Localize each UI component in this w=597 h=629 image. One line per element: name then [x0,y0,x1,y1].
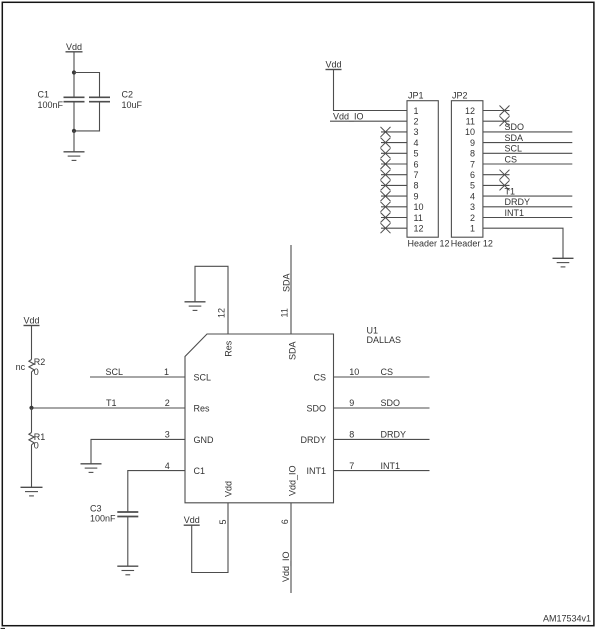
ground (R1) [21,487,43,496]
svg-text:2: 2 [470,213,475,223]
junction bottom (C1/C2 bottom node) [72,129,76,133]
ground (below C1/C2) [64,131,85,161]
wire JP2 pin 12 no-connect [483,106,510,116]
svg-text:0: 0 [34,367,39,377]
wire JP1 pin 3 no-connect [381,127,408,137]
wire JP1 pin 4 no-connect [381,138,408,148]
svg-text:8: 8 [414,181,419,191]
svg-text:GND: GND [194,435,215,445]
svg-text:Header 12: Header 12 [408,239,450,249]
label C2 10uF [122,90,143,110]
resistor R1 [29,433,34,445]
svg-text:SDO: SDO [381,398,401,408]
wire JP1 pin 5 no-connect [381,148,408,158]
svg-text:7: 7 [349,461,354,471]
svg-text:3: 3 [165,430,170,440]
ground (U1 pin 3) [81,464,102,473]
svg-text:SDO: SDO [306,404,326,414]
capacitor C3 [117,512,138,517]
svg-text:9: 9 [349,398,354,408]
svg-text:Res: Res [223,340,233,357]
svg-text:SCL: SCL [106,367,124,377]
svg-text:12: 12 [465,106,475,116]
wire net SDA from JP2 pin 9 [483,133,572,143]
svg-text:10: 10 [349,367,359,377]
wire JP1 pin 8 no-connect [381,180,408,190]
svg-text:9: 9 [414,191,419,201]
label U1 DALLAS [367,326,402,346]
wire JP1 pin 10 no-connect [381,202,408,212]
power Vdd (left) [23,315,39,325]
svg-text:1: 1 [164,367,169,377]
power Vdd (top-left) [66,42,83,52]
svg-text:SCL: SCL [194,373,212,383]
svg-text:Res: Res [194,404,211,414]
wire net INT1 from U1 pin 7 [334,461,430,471]
svg-text:2: 2 [414,117,419,127]
svg-text:C1: C1 [38,90,50,100]
wire net INT1 from JP2 pin 2 [483,208,572,218]
svg-text:INT1: INT1 [381,461,401,471]
svg-text:4: 4 [165,461,170,471]
svg-text:Vdd_IO: Vdd_IO [281,551,291,582]
svg-text:T1: T1 [106,398,117,408]
svg-text:100nF: 100nF [38,100,64,110]
junction top (C1/C2 top node) [72,70,76,74]
wire JP1 pin 7 no-connect [381,170,408,180]
wire C3 to ground [127,517,129,567]
wire Vdd bar to C1 top [73,52,75,98]
svg-text:U1: U1 [367,326,379,336]
wire net SCL from JP2 pin 8 [483,144,572,154]
wire JP2 pin 6 no-connect [483,170,510,180]
svg-text:7: 7 [414,170,419,180]
svg-text:Vdd_IO: Vdd_IO [287,465,297,496]
wire C2 bottom to bottom node [74,102,100,131]
label R1 0 [34,432,46,451]
svg-text:6: 6 [414,159,419,169]
wire R2 to junction [31,372,33,408]
svg-text:AM17534v1: AM17534v1 [543,613,591,623]
svg-text:Header 12: Header 12 [451,239,493,249]
svg-text:Vdd: Vdd [223,481,233,497]
connector JP1 [407,90,438,237]
svg-text:R2: R2 [34,357,46,367]
wire top node to C2 [74,73,100,98]
svg-text:3: 3 [470,202,475,212]
label C1 100nF [38,90,64,110]
wire JP1 pin 11 no-connect [381,213,408,223]
ground (U1 pin 12) [185,302,206,311]
wire net SDA from U1 pin 11 [290,245,292,334]
svg-text:nc: nc [16,362,26,372]
wire JP2 pin 1 to ground [483,228,563,258]
wire net T1 to U1 pin 2 [32,398,186,408]
svg-text:4: 4 [414,138,419,148]
svg-text:T1: T1 [505,186,516,196]
wire net CS from U1 pin 10 [334,367,430,377]
svg-text:5: 5 [470,181,475,191]
wire C1 bottom to bottom node [73,102,75,131]
wire JP2 pin 5 no-connect [483,180,510,190]
svg-text:SDO: SDO [505,122,525,132]
svg-text:SDA: SDA [281,273,291,292]
svg-text:5: 5 [218,519,228,524]
svg-text:DALLAS: DALLAS [367,335,402,345]
JP1 pin numbers 1-12 [414,106,424,234]
svg-text:6: 6 [470,170,475,180]
svg-text:SDA: SDA [287,341,297,360]
wire JP1 pin 9 no-connect [381,191,408,201]
svg-text:CS: CS [505,154,518,164]
svg-text:8: 8 [470,149,475,159]
svg-text:DRDY: DRDY [381,430,407,440]
svg-text:JP1: JP1 [408,90,424,100]
JP2 pin numbers 12-1 [465,106,475,234]
svg-text:C1: C1 [194,466,206,476]
svg-text:SCL: SCL [505,144,523,154]
svg-text:3: 3 [414,127,419,137]
wire junction to R1 [31,408,33,433]
svg-text:CS: CS [313,373,326,383]
power Vdd (U1 pin 5) [184,515,200,525]
svg-text:SDA: SDA [505,133,524,143]
svg-text:10uF: 10uF [122,100,143,110]
svg-text:10: 10 [414,202,424,212]
svg-text:0: 0 [34,441,39,451]
label R2 0 [34,357,46,377]
wire U1 pin 12 to ground [195,266,228,334]
svg-text:Vdd_IO: Vdd_IO [333,111,364,121]
wire U1 pin 5 to Vdd [192,503,228,573]
svg-text:DRDY: DRDY [300,435,326,445]
wire Vdd to R2 [31,326,33,360]
capacitor C2 [89,97,110,101]
junction T1 node [29,406,33,410]
wire U1 pin 4 to C3 [128,471,185,512]
wire net SCL to U1 pin 1 [90,367,185,377]
power Vdd (top-right) [325,59,341,69]
wire JP1 pin 6 no-connect [381,159,408,169]
svg-text:11: 11 [466,117,475,127]
svg-text:Vdd: Vdd [66,42,82,52]
svg-text:INT1: INT1 [306,466,326,476]
svg-text:2: 2 [165,398,170,408]
wire JP1 pin 12 no-connect [381,223,408,233]
ground (C3) [117,566,138,575]
wire net Vdd_IO from U1 pin 6 [290,503,292,593]
svg-text:11: 11 [414,213,423,223]
svg-text:12: 12 [217,308,227,318]
capacitor C1 [64,97,85,101]
connector JP2 [451,90,483,237]
wire R1 to ground [31,445,33,488]
svg-text:5: 5 [414,149,419,159]
svg-text:C3: C3 [90,504,102,514]
svg-text:7: 7 [470,159,475,169]
svg-text:Vdd: Vdd [23,315,39,325]
svg-text:6: 6 [280,519,290,524]
wire Vdd to JP1 pin 1 [334,70,408,111]
svg-text:12: 12 [414,224,424,234]
wire U1 pin 3 to ground [91,439,185,463]
svg-text:11: 11 [280,308,290,317]
svg-text:9: 9 [470,138,475,148]
svg-text:CS: CS [381,367,394,377]
ground (JP2 pin 1) [553,258,574,267]
wire net CS from JP2 pin 7 [483,154,572,164]
wire net SDO from U1 pin 9 [334,398,430,408]
svg-text:Vdd: Vdd [325,59,341,69]
wire Vdd_IO to JP1 pin 2 [330,120,407,122]
svg-text:100nF: 100nF [90,513,116,523]
wire net DRDY from U1 pin 8 [334,430,430,440]
resistor R2 [29,360,34,372]
label C3 100nF [90,504,116,524]
svg-text:INT1: INT1 [505,208,525,218]
svg-text:C2: C2 [122,90,134,100]
svg-text:10: 10 [465,127,475,137]
op-amp/IC U1 body [185,334,334,503]
wire net T1 from JP2 pin 4 [483,186,572,196]
svg-text:DRDY: DRDY [505,197,531,207]
svg-text:4: 4 [470,191,475,201]
wire net DRDY from JP2 pin 3 [483,197,572,207]
svg-text:1: 1 [414,106,419,116]
svg-text:1: 1 [470,224,475,234]
wire net SDO from JP2 pin 10 [483,122,572,132]
svg-text:JP2: JP2 [452,90,468,100]
svg-text:Vdd: Vdd [184,515,200,525]
svg-text:8: 8 [349,430,354,440]
wire JP2 pin 11 no-connect [483,116,510,126]
